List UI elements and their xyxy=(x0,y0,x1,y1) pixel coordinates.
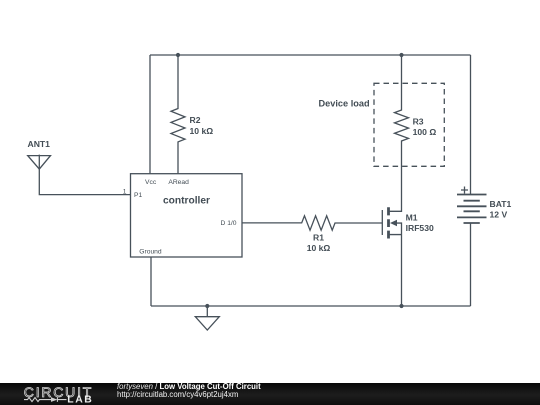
svg-text:P1: P1 xyxy=(134,192,142,199)
svg-text:1: 1 xyxy=(123,189,127,196)
svg-text:12 V: 12 V xyxy=(490,209,508,219)
svg-text:Device load: Device load xyxy=(319,98,370,108)
svg-text:10 kΩ: 10 kΩ xyxy=(190,126,214,136)
svg-text:LAB: LAB xyxy=(67,395,92,405)
svg-text:IRF530: IRF530 xyxy=(406,223,434,233)
svg-text:R3: R3 xyxy=(413,117,424,127)
svg-text:10 kΩ: 10 kΩ xyxy=(307,243,331,253)
svg-text:ARead: ARead xyxy=(168,179,189,186)
svg-text:Ground: Ground xyxy=(139,249,162,256)
svg-text:Vcc: Vcc xyxy=(145,179,157,186)
svg-text:controller: controller xyxy=(163,195,210,206)
svg-text:BAT1: BAT1 xyxy=(490,199,512,209)
svg-text:R1: R1 xyxy=(313,233,324,243)
svg-text:100 Ω: 100 Ω xyxy=(413,127,437,137)
svg-text:R2: R2 xyxy=(190,115,201,125)
svg-text:M1: M1 xyxy=(406,212,418,222)
svg-text:ANT1: ANT1 xyxy=(28,139,51,149)
svg-text:D 1/0: D 1/0 xyxy=(221,220,237,227)
